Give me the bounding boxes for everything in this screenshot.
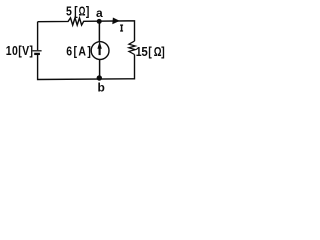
svg-text:10[V]: 10[V] — [6, 45, 34, 58]
svg-text:[: [ — [148, 46, 152, 59]
svg-text:[: [ — [74, 6, 78, 19]
svg-text:6[A]: 6[A] — [66, 46, 92, 59]
svg-text:5: 5 — [66, 6, 72, 19]
svg-text:Ω: Ω — [154, 46, 162, 59]
svg-text:5: 5 — [141, 44, 148, 59]
svg-text:Ω: Ω — [79, 5, 86, 19]
svg-text:b: b — [98, 81, 105, 95]
svg-text:]: ] — [161, 46, 165, 59]
svg-text:a: a — [96, 6, 103, 20]
svg-text:]: ] — [86, 6, 90, 19]
